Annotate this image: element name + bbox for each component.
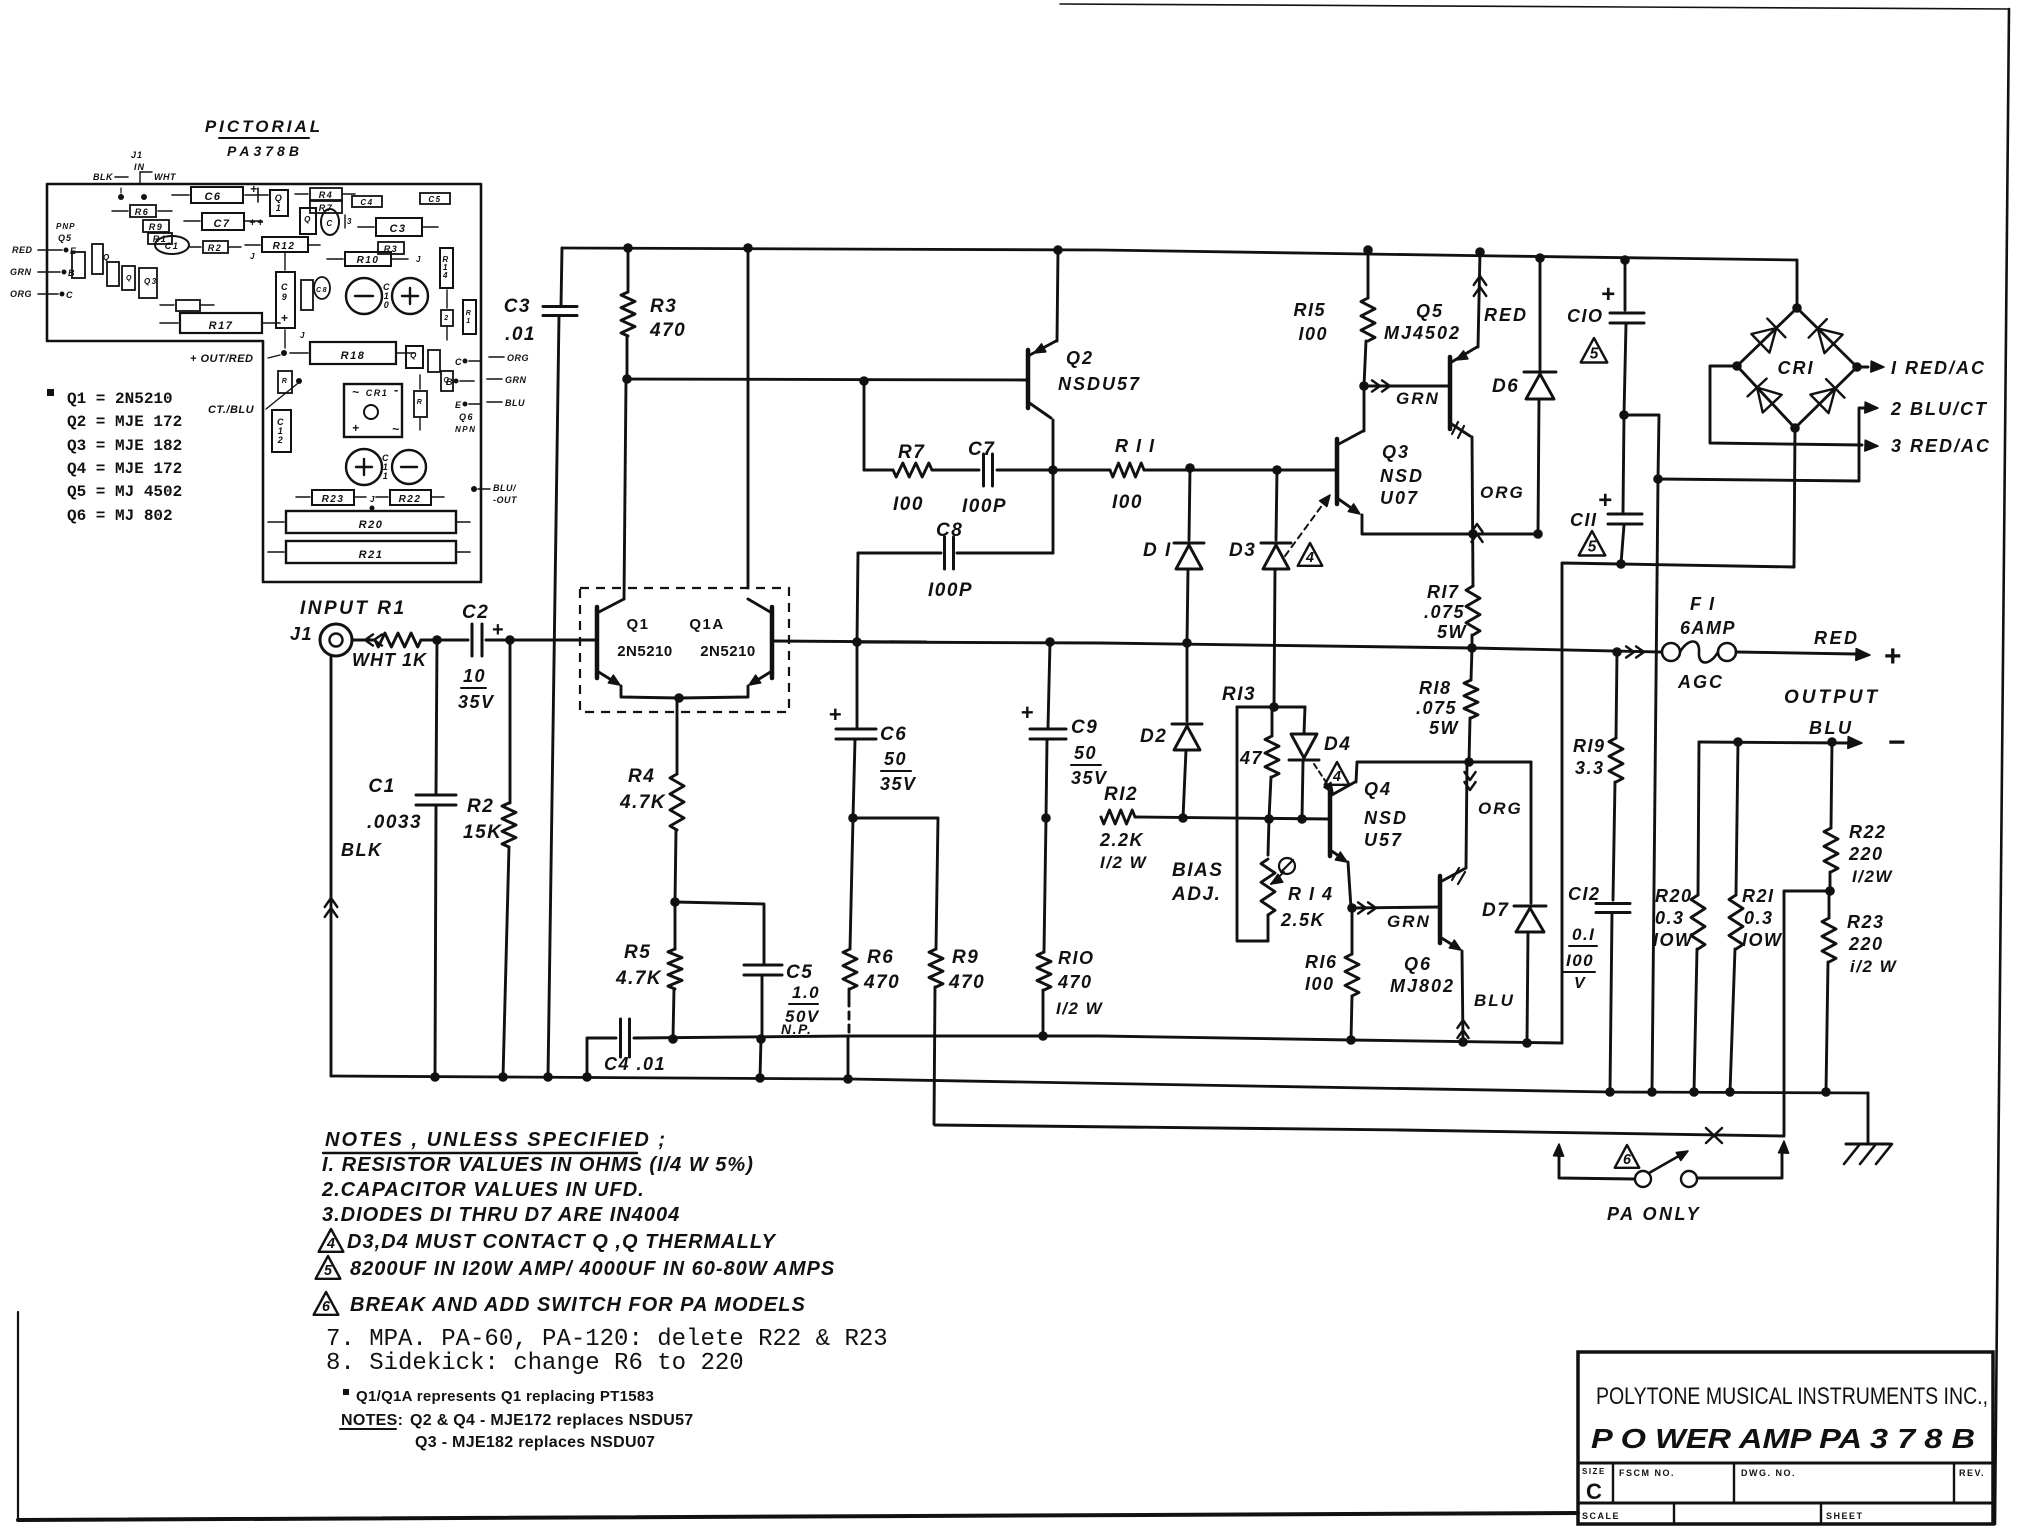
thermal dashed arrow D3 to Q3 (1285, 495, 1330, 566)
svg-text:2: 2 (277, 435, 285, 445)
svg-text:GRN: GRN (10, 267, 32, 277)
svg-text:-: - (394, 382, 400, 397)
svg-text:RED: RED (12, 245, 33, 255)
pictorial R11 small (160, 300, 214, 311)
svg-text:-OUT: -OUT (493, 495, 518, 505)
svg-text:470: 470 (649, 320, 686, 341)
svg-text:Q6: Q6 (459, 412, 474, 422)
svg-text:C: C (66, 290, 74, 300)
resistor R4 (619, 698, 684, 902)
svg-text:Q: Q (126, 275, 133, 282)
title FSCM (1619, 1468, 1675, 1478)
capacitor C2 (458, 602, 505, 712)
pictorial C3 (358, 218, 438, 236)
svg-text:C6: C6 (204, 191, 221, 203)
svg-text:.075: .075 (1416, 698, 1457, 718)
svg-text:R I I: R I I (1115, 436, 1156, 456)
junction Q1 emitters (674, 693, 684, 703)
resistor R19 (1573, 652, 1623, 900)
svg-text:D3: D3 (1229, 540, 1256, 561)
svg-text:U57: U57 (1364, 830, 1403, 850)
ground rail (331, 1076, 1868, 1093)
svg-text:BLU/: BLU/ (493, 483, 517, 493)
wire R9 to PA line (934, 1124, 1783, 1136)
junction ORG node (1464, 757, 1474, 767)
svg-text:Q4 = MJE 172: Q4 = MJE 172 (67, 460, 182, 478)
svg-text:C4 .01: C4 .01 (604, 1054, 666, 1074)
svg-text:R17: R17 (209, 320, 234, 332)
BLU label lower (1457, 991, 1515, 1038)
junction dots on R11 line (1185, 463, 1282, 475)
node R4 bottom (670, 897, 764, 963)
svg-text:I/2 W: I/2 W (1056, 999, 1104, 1018)
transistor Q6 (1390, 876, 1463, 1041)
junction C5 bottom on feedback line (756, 1034, 766, 1078)
svg-text:2: 2 (443, 315, 449, 322)
svg-text:220: 220 (1848, 934, 1884, 954)
page right border (1995, 9, 2009, 1524)
resistor R13 (1222, 684, 1279, 819)
svg-text:R: R (417, 399, 424, 406)
resistor R7 (864, 442, 932, 515)
svg-text:+: + (492, 619, 505, 641)
svg-text:5W: 5W (1437, 622, 1468, 642)
svg-text:R21: R21 (359, 549, 384, 561)
Q1 Q1A dashed package box (580, 588, 789, 712)
svg-text:CR1: CR1 (366, 388, 389, 398)
svg-text:2.5K: 2.5K (1280, 910, 1326, 930)
svg-text:6: 6 (322, 1299, 331, 1315)
pictorial board outline (47, 184, 481, 582)
pictorial Q5 Q-small rects right (406, 346, 453, 391)
diode D4 (1289, 707, 1351, 819)
svg-text:I00: I00 (893, 494, 924, 515)
svg-text:+: + (829, 702, 843, 727)
svg-text:R: R (282, 378, 289, 385)
svg-text:I00: I00 (1298, 324, 1328, 344)
svg-text:DWG. NO.: DWG. NO. (1741, 1468, 1796, 1478)
transistor Q1 (597, 599, 679, 698)
svg-text:50: 50 (884, 749, 907, 769)
capacitor C3 (504, 248, 577, 1077)
svg-text:INPUT R1: INPUT R1 (300, 598, 407, 619)
svg-text:R4: R4 (628, 766, 655, 787)
svg-text:RIO: RIO (1058, 948, 1095, 968)
title DWG (1741, 1468, 1796, 1478)
note 6 with triangle (314, 1292, 806, 1316)
svg-text:C: C (326, 219, 333, 228)
svg-text:RI9: RI9 (1573, 736, 1606, 756)
svg-text:C: C (281, 282, 289, 292)
svg-text:F I: F I (1690, 594, 1716, 614)
svg-text:D4: D4 (1324, 734, 1351, 755)
footnote Q1/Q1A (343, 1388, 654, 1405)
resistor R20 (1653, 742, 1705, 1092)
junction dots mid rail (1045, 637, 1622, 657)
transistor Q4 (1330, 762, 1469, 908)
pictorial R21 (268, 541, 470, 563)
resistor R22 (1824, 742, 1893, 891)
capacitor C8 (857, 520, 1053, 642)
svg-text:Q5: Q5 (58, 233, 72, 243)
svg-text:Q6: Q6 (1404, 954, 1432, 974)
svg-text:GRN: GRN (505, 375, 527, 385)
svg-text:4.7K: 4.7K (615, 968, 662, 989)
note 1 (322, 1154, 754, 1176)
wire R7 branch from VAS line (863, 381, 866, 470)
svg-text:5: 5 (324, 1263, 333, 1279)
pictorial R19 small (278, 371, 302, 393)
svg-text:C1: C1 (368, 776, 395, 797)
wire C8 right end up to R11 node (1052, 470, 1055, 553)
resistor R5 (615, 902, 682, 1044)
svg-text:PICTORIAL: PICTORIAL (205, 117, 323, 136)
svg-text:AGC: AGC (1677, 672, 1724, 692)
pictorial C8 (301, 277, 330, 310)
title block dividers (1578, 1463, 1993, 1524)
svg-text:4.7K: 4.7K (619, 792, 666, 813)
wire R1 to C2 (421, 635, 468, 645)
pictorial Q1 (270, 190, 288, 216)
junction C6 bottom (848, 813, 938, 949)
junction C11 bottom (1616, 559, 1794, 569)
svg-text:~: ~ (392, 422, 401, 436)
svg-text:Q2 & Q4 - MJE172 replaces NSDU: Q2 & Q4 - MJE172 replaces NSDU57 (410, 1412, 694, 1429)
wire bridge bottom down (1794, 428, 1795, 567)
svg-text:I00P: I00P (962, 496, 1007, 517)
note 2 (321, 1179, 645, 1201)
svg-text:R23: R23 (322, 494, 345, 505)
svg-text:2 BLU/CT: 2 BLU/CT (1890, 399, 1988, 419)
svg-text:+: + (1021, 700, 1035, 725)
pictorial R6 R9 R1 (112, 205, 172, 244)
svg-text:0.I: 0.I (1572, 925, 1595, 944)
svg-text:CT./BLU: CT./BLU (208, 404, 255, 416)
svg-text:NOTES:: NOTES: (341, 1412, 403, 1429)
svg-text:PNP: PNP (56, 222, 75, 231)
svg-text:Q5 = MJ 4502: Q5 = MJ 4502 (67, 483, 182, 501)
svg-text:ORG: ORG (507, 353, 529, 363)
svg-text:Q: Q (275, 193, 284, 203)
resistor R17 (1424, 582, 1480, 648)
resistor R21 (1729, 742, 1783, 1092)
pictorial CR1 square (344, 382, 402, 437)
svg-text:I00: I00 (1305, 974, 1335, 994)
svg-text:10: 10 (463, 666, 486, 686)
pictorial C4 C5 small rects (345, 193, 450, 228)
title SCALE (1582, 1511, 1620, 1521)
center tap wire to ground rail (1647, 474, 1663, 1097)
svg-text:Q: Q (103, 253, 111, 262)
svg-text:.075: .075 (1424, 602, 1465, 622)
svg-text:NPN: NPN (455, 425, 476, 434)
top rail (562, 248, 1797, 260)
junction dots ground rail right (1605, 1087, 1831, 1097)
pictorial left labels PNP Q5 RED GRN ORG (10, 222, 78, 300)
svg-text:J1: J1 (290, 624, 313, 644)
svg-text:2.CAPACITOR VALUES IN UFD.: 2.CAPACITOR VALUES IN UFD. (321, 1179, 645, 1201)
svg-text:C6: C6 (880, 724, 907, 745)
svg-text:R: R (466, 310, 473, 317)
minus output BLU line (1699, 718, 1907, 759)
svg-text:NOTES , UNLESS SPECIFIED ;: NOTES , UNLESS SPECIFIED ; (325, 1129, 667, 1151)
svg-text:C4: C4 (360, 198, 373, 207)
svg-text:2N5210: 2N5210 (617, 643, 673, 660)
svg-text:i/2 W: i/2 W (1850, 957, 1898, 976)
wire R18 (1471, 648, 1472, 680)
resistor R18 (1416, 678, 1478, 762)
svg-text:Q1: Q1 (626, 616, 649, 633)
svg-text:R9: R9 (952, 947, 979, 968)
svg-text:+: + (1884, 640, 1903, 673)
transistor list Q1-Q6 (47, 389, 182, 525)
resistor R6 (843, 818, 900, 1079)
svg-text:BIAS: BIAS (1172, 860, 1223, 881)
note 3 (322, 1204, 680, 1226)
svg-text:D7: D7 (1482, 900, 1509, 921)
ORG label lower (1464, 772, 1522, 818)
svg-text:IOW: IOW (1653, 930, 1694, 950)
svg-text:R7: R7 (898, 442, 925, 463)
svg-text:470: 470 (1057, 972, 1093, 992)
svg-text:D I: D I (1143, 540, 1172, 561)
svg-text:GRN: GRN (1396, 389, 1440, 408)
diode D6 (1492, 253, 1556, 534)
mid output rail (857, 642, 1661, 652)
svg-text:3.DIODES DI THRU D7 ARE I: 3.DIODES DI THRU D7 ARE IN4004 (322, 1204, 680, 1226)
svg-text:RED: RED (1484, 305, 1528, 325)
svg-text:1: 1 (383, 471, 390, 481)
note 7 (326, 1326, 888, 1353)
resistor R10 (1037, 818, 1104, 1041)
svg-text:IOW: IOW (1742, 930, 1783, 950)
pictorial R4 R7 stack (295, 188, 355, 213)
svg-text:RI6: RI6 (1305, 952, 1338, 972)
capacitor C10 (1567, 255, 1644, 415)
svg-text:RI8: RI8 (1419, 678, 1452, 698)
svg-text:4: 4 (326, 1236, 335, 1252)
svg-text:0: 0 (384, 300, 391, 310)
pictorial R20 (268, 511, 470, 533)
svg-text:J: J (416, 255, 422, 264)
svg-text:IN: IN (134, 162, 145, 172)
note 8 (326, 1350, 744, 1377)
svg-text:I RED/AC: I RED/AC (1891, 358, 1986, 378)
svg-text:NSD: NSD (1364, 808, 1408, 828)
svg-text:I. RESISTOR VALUES IN OHM: I. RESISTOR VALUES IN OHMS (I/4 W 5%) (322, 1154, 754, 1176)
svg-text:6AMP: 6AMP (1680, 618, 1736, 638)
svg-text:OUTPUT: OUTPUT (1784, 687, 1880, 708)
svg-text:5: 5 (1588, 538, 1597, 555)
bridge diode top-left (1751, 319, 1785, 353)
svg-text:+ OUT/RED: + OUT/RED (190, 353, 253, 365)
svg-text:R12: R12 (273, 241, 296, 252)
svg-text:Q4: Q4 (1364, 779, 1392, 799)
pictorial C9 vertical (276, 252, 295, 348)
transistor Q1A (679, 599, 772, 698)
junction dots on minus-V line (1346, 1035, 1532, 1048)
title block box (1578, 1352, 1993, 1524)
input label (300, 598, 407, 619)
svg-text:CII: CII (1570, 510, 1598, 530)
pictorial C10 circles (346, 278, 428, 314)
svg-text:E: E (455, 400, 463, 410)
node Q3 collector / Q5 base line (1359, 380, 1450, 408)
svg-text:C5: C5 (786, 962, 813, 983)
svg-text:I00: I00 (1112, 492, 1143, 513)
junction Q2 emitter R11 (1048, 465, 1058, 475)
junction GRN node (1347, 902, 1440, 931)
svg-text:NSDU57: NSDU57 (1058, 374, 1141, 394)
svg-text:C7: C7 (968, 439, 995, 460)
svg-text:2N5210: 2N5210 (700, 643, 756, 660)
node R3 bottom / VAS base line (622, 374, 1028, 386)
resistor R14 trimmer (1237, 707, 1334, 941)
junction dots on R12 line (1178, 813, 1307, 824)
svg-text:I/2W: I/2W (1852, 867, 1893, 886)
svg-text:ORG: ORG (10, 289, 32, 299)
bridge output 1 RED/AC (1857, 358, 1986, 378)
svg-text:C5: C5 (428, 195, 441, 204)
resistor R12 (1099, 784, 1330, 872)
svg-text:5W: 5W (1429, 718, 1460, 738)
pictorial R12 (245, 237, 320, 261)
svg-text:−: − (1888, 726, 1907, 759)
resistor R9 (929, 947, 985, 1124)
svg-text:9: 9 (282, 292, 289, 302)
svg-text:C9: C9 (1071, 717, 1098, 738)
junction C10 bottom CT (1619, 410, 1659, 479)
svg-text:J: J (300, 331, 306, 340)
pictorial title PA378B (205, 117, 323, 159)
svg-text:C: C (455, 357, 463, 367)
pictorial CT/BLU label (208, 384, 297, 416)
svg-text:R20: R20 (1655, 886, 1693, 906)
wire minus-V up to bridge (1562, 563, 1621, 1043)
svg-text:Q6 = MJ 802: Q6 = MJ 802 (67, 507, 173, 525)
svg-text:1.0: 1.0 (792, 983, 820, 1002)
svg-text:D3,D4 MUST CONTACT Q ,Q: D3,D4 MUST CONTACT Q ,Q THERMALLY (347, 1231, 777, 1253)
svg-text:35V: 35V (880, 774, 917, 794)
svg-text:WHT 1K: WHT 1K (352, 650, 428, 670)
svg-text:470: 470 (863, 972, 900, 993)
pictorial small transistors left (72, 244, 158, 298)
svg-text:FSCM NO.: FSCM NO. (1619, 1468, 1675, 1478)
svg-text:.01: .01 (505, 324, 536, 345)
svg-text:Q3: Q3 (1382, 442, 1410, 462)
svg-text:SIZE: SIZE (1582, 1467, 1606, 1476)
svg-text:Q1 = 2N5210: Q1 = 2N5210 (67, 390, 173, 408)
svg-text:Q5: Q5 (1416, 301, 1444, 321)
svg-text:47: 47 (1239, 748, 1263, 768)
svg-text:SCALE: SCALE (1582, 1511, 1620, 1521)
pictorial R14 vertical (440, 248, 453, 288)
transistor Q5 (1384, 247, 1528, 586)
resistor R2 (463, 640, 516, 1077)
svg-text:R I 4: R I 4 (1288, 884, 1334, 904)
pictorial C12 vertical (272, 410, 291, 452)
bridge diode bottom-right (1810, 379, 1844, 413)
resistor R3 (621, 243, 686, 379)
bridge output 3 RED/AC (1710, 366, 1991, 456)
pictorial R13 small vertical (414, 375, 427, 430)
junction R22 R23 (1825, 886, 1835, 896)
svg-text:Q3 = MJE 182: Q3 = MJE 182 (67, 437, 182, 455)
svg-text:RED: RED (1814, 628, 1860, 648)
svg-text:1: 1 (466, 318, 471, 325)
svg-text:CIO: CIO (1567, 306, 1604, 326)
svg-text:+: + (352, 421, 361, 435)
bridge rectifier CR1 (1732, 260, 1862, 433)
svg-text:15K: 15K (463, 822, 502, 843)
svg-text:BLU: BLU (1474, 991, 1515, 1010)
pictorial C6 (172, 182, 268, 203)
pictorial R17 (160, 313, 280, 333)
capacitor C12 (1563, 884, 1630, 1092)
wire J1 to R1 (352, 634, 382, 645)
svg-text:3 RED/AC: 3 RED/AC (1891, 436, 1991, 456)
pictorial C7 (184, 213, 265, 230)
resistor R23 (1822, 891, 1898, 1092)
svg-text:8. Sidekick: change R6 to 220: 8. Sidekick: change R6 to 220 (326, 1350, 744, 1377)
svg-text:4: 4 (442, 271, 449, 280)
svg-text:MJ4502: MJ4502 (1384, 323, 1461, 343)
svg-text:470: 470 (948, 972, 985, 993)
diode D2 (1140, 643, 1202, 818)
svg-text:R3: R3 (650, 296, 677, 317)
svg-text:0.3: 0.3 (1744, 908, 1774, 928)
svg-text:PA ONLY: PA ONLY (1607, 1204, 1701, 1224)
svg-text:Q1A: Q1A (689, 616, 724, 633)
svg-text:RI7: RI7 (1427, 582, 1460, 602)
bridge diode bottom-left (1748, 379, 1782, 413)
title REV (1959, 1468, 1985, 1478)
svg-text:I00P: I00P (928, 580, 973, 601)
svg-text:BLK: BLK (93, 172, 114, 182)
svg-text:6: 6 (1623, 1152, 1632, 1168)
thermal dashed arrow D4 to Q4 (1314, 764, 1333, 793)
svg-text:8200UF IN I20W AMP/ 4000UF: 8200UF IN I20W AMP/ 4000UF IN 60-80W AMP… (350, 1258, 835, 1280)
capacitor C7 (932, 439, 1053, 517)
resistor R16 (1305, 908, 1359, 1040)
resistor R15 (1293, 245, 1375, 386)
svg-text:Q3 - MJE182 replaces NSDU07: Q3 - MJE182 replaces NSDU07 (415, 1434, 655, 1451)
wire fuse to + output (1736, 628, 1903, 673)
pictorial right connector labels (446, 353, 529, 505)
svg-text:Q2: Q2 (1066, 348, 1094, 368)
wire R22R23 junction to PA line (1784, 891, 1830, 1136)
fuse F1 (1626, 594, 1736, 692)
svg-text:R2: R2 (467, 796, 494, 817)
svg-text:Q: Q (410, 351, 418, 360)
svg-text:Q2 = MJE 172: Q2 = MJE 172 (67, 413, 182, 431)
diode D7 (1469, 762, 1546, 1043)
svg-text:220: 220 (1848, 844, 1884, 864)
svg-text:R2: R2 (208, 243, 223, 253)
svg-text:RI3: RI3 (1222, 684, 1256, 705)
svg-text:CI2: CI2 (1568, 884, 1601, 904)
svg-text:5: 5 (1590, 345, 1599, 362)
page left border (bottom part) (17, 1312, 19, 1521)
title SHEET (1826, 1511, 1864, 1521)
svg-text:C1: C1 (165, 241, 180, 251)
svg-text:D6: D6 (1492, 376, 1519, 397)
svg-text:R4: R4 (319, 190, 334, 200)
pictorial R3 (378, 242, 404, 254)
svg-text:J1: J1 (131, 150, 143, 160)
footnote NOTES Q2 Q4 (340, 1412, 694, 1429)
PA switch bypass (1554, 1144, 1783, 1187)
